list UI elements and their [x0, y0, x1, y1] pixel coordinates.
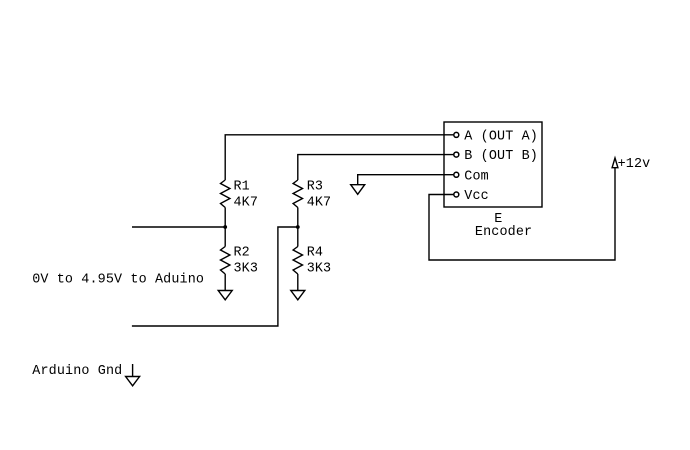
svg-text:4K7: 4K7 [307, 196, 332, 211]
svg-text:B (OUT B): B (OUT B) [464, 149, 538, 164]
svg-text:Arduino Gnd: Arduino Gnd [32, 364, 122, 379]
svg-text:A (OUT A): A (OUT A) [464, 129, 538, 144]
svg-text:Vcc: Vcc [464, 189, 489, 204]
svg-text:Com: Com [464, 169, 489, 184]
svg-text:0V to 4.95V to Aduino: 0V to 4.95V to Aduino [32, 273, 204, 288]
svg-text:3K3: 3K3 [307, 262, 332, 277]
svg-text:R3: R3 [307, 179, 323, 194]
svg-text:3K3: 3K3 [234, 262, 259, 277]
svg-text:4K7: 4K7 [234, 196, 259, 211]
svg-text:+12v: +12v [618, 157, 651, 172]
svg-text:R4: R4 [307, 245, 323, 260]
svg-text:R2: R2 [234, 245, 250, 260]
svg-text:R1: R1 [234, 179, 250, 194]
svg-text:Encoder: Encoder [475, 225, 532, 240]
